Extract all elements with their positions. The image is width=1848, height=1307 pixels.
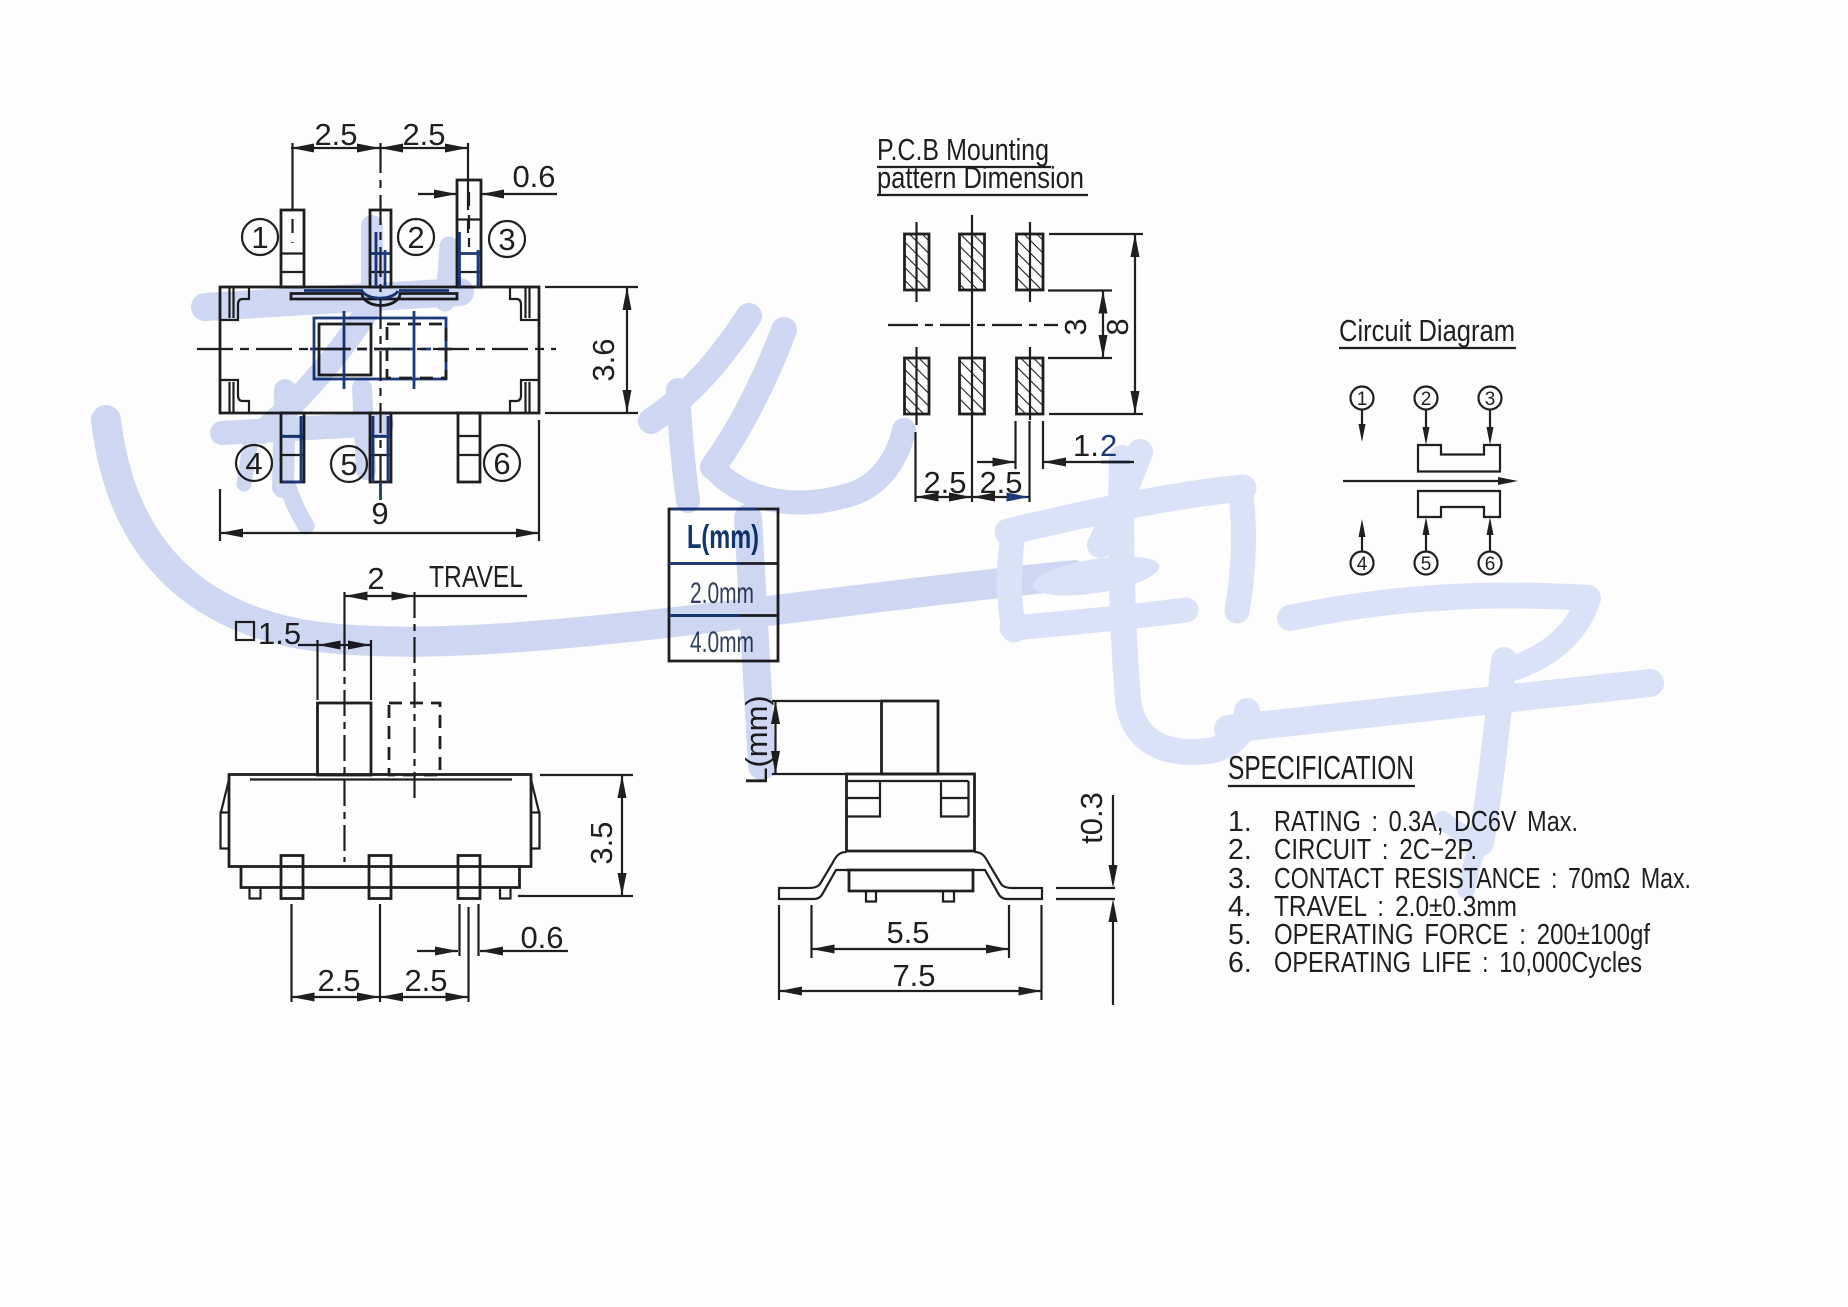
svg-text:OPERATING LIFE : 10,000Cycles: OPERATING LIFE : 10,000Cycles [1274, 947, 1642, 979]
front view right foot [500, 888, 511, 899]
svg-text:0.6: 0.6 [512, 159, 555, 194]
svg-text:SPECIFICATION: SPECIFICATION [1228, 749, 1414, 786]
side view body outline [847, 774, 975, 851]
svg-text:5: 5 [340, 447, 357, 482]
front view left foot [250, 888, 261, 899]
front view dim 1.5 with square symbol [236, 616, 371, 700]
top view balloon 4 [236, 445, 272, 481]
svg-text:CIRCUIT : 2C−2P.: CIRCUIT : 2C−2P. [1274, 834, 1477, 866]
watermark character dian [1100, 452, 1140, 545]
pcb pad top-middle [960, 234, 985, 290]
pcb pad bottom-right [1017, 347, 1044, 420]
svg-text:3: 3 [498, 222, 515, 257]
top view balloon 3 [489, 221, 525, 257]
svg-text:3.5: 3.5 [584, 821, 619, 864]
front view knob centerline left [343, 592, 345, 645]
front view dim 2.5 pair [292, 904, 469, 1002]
top view knob solid rect [319, 324, 371, 375]
top view balloon 2 [398, 219, 434, 255]
side view dim 5.5 [812, 905, 1010, 958]
svg-text:Circuit Diagram: Circuit Diagram [1339, 313, 1515, 348]
top view corner notch top-left [221, 288, 249, 320]
svg-text:6: 6 [493, 446, 510, 481]
specification list [1228, 806, 1691, 979]
top view pin 4 body [281, 413, 304, 482]
pcb pad bottom-middle [960, 358, 985, 414]
top view body outline [220, 287, 539, 413]
top view corner notch bottom-left [221, 380, 249, 412]
side view left gull-wing leg [779, 852, 847, 899]
svg-text:7.5: 7.5 [892, 958, 935, 993]
svg-text:5.5: 5.5 [886, 915, 929, 950]
svg-text:2.5: 2.5 [404, 963, 447, 998]
front view knob centerline right dashed [413, 592, 415, 800]
top view knob alternate position dashed [387, 324, 446, 378]
circuit common slider line with arrow [1343, 477, 1518, 485]
front view dim 3.5 [518, 775, 633, 896]
circuit lower contact bracket [1418, 491, 1500, 517]
watermark character huang [106, 226, 1650, 890]
pcb pad top-left [905, 222, 930, 302]
side view left small foot [866, 891, 876, 902]
svg-text:2.5: 2.5 [317, 963, 360, 998]
watermark character zi [1290, 595, 1588, 618]
pcb pattern title [877, 132, 1088, 195]
side view L dim label rotated [739, 695, 880, 785]
circuit arrow to 6 [1487, 517, 1494, 551]
top view balloon 6 [484, 445, 520, 481]
svg-text:2: 2 [1421, 389, 1432, 410]
top view balloon 5 [331, 446, 367, 482]
top view pin 6 body [458, 413, 480, 482]
front view base flange [241, 867, 520, 888]
top view pin 5 body [370, 413, 391, 500]
side view dim 7.5 [779, 905, 1042, 1000]
pcb middle column vertical line [971, 215, 973, 502]
svg-text:2.5: 2.5 [314, 117, 357, 152]
top view navy crosshair right [413, 311, 416, 389]
side view pcb surface lines [1056, 888, 1115, 899]
svg-text:8: 8 [1100, 318, 1135, 335]
pcb centerline horizontal dash-dot [888, 324, 1058, 326]
front view left side tab [221, 780, 230, 849]
side view base [847, 870, 975, 891]
svg-text:pattern Dimension: pattern Dimension [877, 160, 1084, 195]
front view body outline [229, 775, 531, 867]
svg-text:1: 1 [251, 220, 268, 255]
top view cover plate line with center bump [291, 294, 457, 306]
svg-text:3.6: 3.6 [586, 338, 621, 381]
svg-text:0.6: 0.6 [520, 920, 563, 955]
circuit terminal 3 balloon [1479, 387, 1502, 411]
top view horizontal dash-dot centerline [197, 348, 556, 350]
side view body inner details [847, 781, 969, 817]
circuit terminal 4 balloon [1351, 552, 1374, 576]
top view dim 2.5 right [380, 117, 468, 240]
circuit arrow from 2 [1423, 410, 1430, 445]
top view corner notch bottom-right [510, 380, 538, 412]
top view navy crosshair left [343, 311, 346, 389]
side view right gull-wing leg [975, 852, 1043, 899]
svg-text:6: 6 [1485, 554, 1496, 575]
circuit terminal 6 balloon [1479, 552, 1502, 576]
pcb pad bottom-left [905, 347, 930, 425]
circuit terminal 2 balloon [1415, 387, 1438, 411]
front view dim 0.6 [417, 904, 568, 956]
top view balloon 1 [242, 219, 278, 255]
circuit upper contact bracket [1418, 445, 1500, 472]
front view knob dashed position [389, 703, 440, 775]
svg-text:2.5: 2.5 [402, 117, 445, 152]
circuit arrow to 4 [1359, 519, 1366, 551]
front view pin 5 [369, 856, 391, 899]
top view dim 9 [220, 420, 539, 541]
pcb dim 3 [1048, 291, 1112, 359]
svg-text:3: 3 [1485, 389, 1496, 410]
top view pin 2 body [370, 210, 391, 287]
top view dim 2.5 left [291, 117, 380, 153]
top view pin 3 body [457, 180, 481, 287]
circuit arrow from 3 [1487, 410, 1494, 445]
circuit terminal 5 balloon [1415, 552, 1438, 576]
top view vertical dash-dot centerline [379, 143, 381, 505]
svg-text:TRAVEL: TRAVEL [429, 559, 523, 594]
svg-text:3: 3 [1058, 318, 1093, 335]
circuit arrow from 1 [1359, 410, 1366, 442]
svg-text:4: 4 [1357, 554, 1368, 575]
top view dim 3.6 [545, 287, 638, 413]
pcb dim 8 [1049, 234, 1143, 414]
side view right small foot [943, 891, 954, 902]
svg-text:2: 2 [367, 561, 384, 596]
svg-text:t0.3: t0.3 [1074, 792, 1109, 844]
front view knob solid [318, 703, 372, 775]
front view pin 6 [458, 856, 480, 899]
top view cover navy overlay [304, 291, 449, 299]
top view dim 0.6 [418, 159, 557, 199]
top view navy horizontal centerline [310, 348, 452, 351]
svg-text:2: 2 [407, 220, 424, 255]
front view right side tab [531, 780, 540, 849]
top view corner notch top-right [510, 288, 538, 320]
svg-text:1: 1 [1357, 389, 1368, 410]
pcb dim 2.5 pair [916, 432, 1030, 502]
L table box [669, 509, 778, 661]
side view dim t0.3 [1074, 792, 1118, 1005]
side view knob [882, 701, 939, 774]
svg-text:5: 5 [1421, 554, 1432, 575]
svg-text:1.: 1. [1073, 428, 1099, 463]
circuit terminal 1 balloon [1351, 387, 1374, 411]
top view pin 1 body [281, 143, 304, 287]
pcb pad top-right [1017, 222, 1044, 302]
pcb dim 1.2 [977, 421, 1134, 502]
top view navy slider frame [314, 318, 446, 379]
watermark character hua [651, 316, 749, 421]
specification title [1228, 749, 1415, 786]
svg-text:9: 9 [371, 496, 388, 531]
circuit arrow to 5 [1423, 517, 1430, 551]
circuit diagram title [1339, 313, 1516, 348]
svg-text:6.: 6. [1228, 947, 1252, 979]
front view pin 4 [281, 856, 303, 899]
svg-text:2.: 2. [1228, 834, 1252, 866]
front view dim 2 travel [345, 559, 528, 601]
